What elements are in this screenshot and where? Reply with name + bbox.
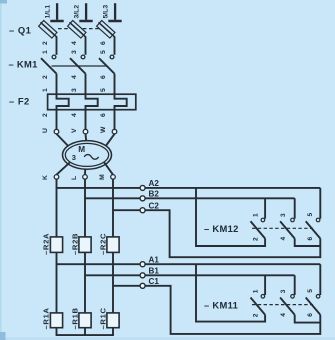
- node L1 terminal: [50, 3, 63, 21]
- contactor KM12 contact 1-2: [251, 218, 266, 238]
- contactor KM1 pole 1: [41, 55, 57, 74]
- svg-text:1: 1: [253, 289, 260, 293]
- node B2: [140, 196, 145, 201]
- wire A1 to KM11 pin 5: [319, 264, 321, 295]
- wire B2 tap: [85, 197, 295, 199]
- svg-text:6: 6: [307, 313, 314, 317]
- node L2 terminal: [79, 3, 92, 21]
- wire U to motor: [57, 134, 70, 148]
- svg-text:2: 2: [253, 237, 260, 241]
- contactor KM11 contact 1-2: [251, 295, 266, 315]
- svg-text:– F2: – F2: [9, 96, 30, 107]
- svg-text:–R1C: –R1C: [98, 307, 107, 329]
- resistor R1C: [107, 313, 119, 328]
- wire B1 to KM11 pin 1: [264, 275, 266, 295]
- wire C2 tap and down to common bar: [113, 210, 320, 257]
- wire Q1 to KM1 pole2: [85, 36, 87, 54]
- wire Q1 to KM1 pole3: [114, 36, 116, 54]
- wire A1 tap: [57, 263, 321, 265]
- wire KM1 to F2 pole1: [56, 74, 58, 95]
- resistor R1A: [50, 313, 62, 328]
- wire R1B to star bar: [84, 328, 86, 335]
- contactor KM1 pole 3: [99, 55, 115, 74]
- resistor R1B: [79, 313, 91, 328]
- motor M 3~: [63, 141, 112, 170]
- svg-text:4: 4: [280, 237, 287, 241]
- svg-text:W: W: [100, 126, 107, 133]
- svg-text:–R1A: –R1A: [41, 307, 50, 329]
- contactor KM11 contact 3-4: [280, 295, 295, 315]
- svg-text:– KM11: – KM11: [204, 299, 238, 310]
- svg-text:1: 1: [253, 213, 260, 217]
- wire B1 to KM11 pin 3: [294, 275, 296, 295]
- node M: [111, 175, 116, 180]
- svg-text:A2: A2: [149, 179, 160, 188]
- svg-text:B2: B2: [149, 190, 160, 199]
- contactor KM12 contact 5-6: [306, 218, 321, 238]
- svg-text:B1: B1: [149, 267, 160, 276]
- KM1 mechanical link: [52, 65, 107, 67]
- svg-text:3: 3: [71, 88, 78, 92]
- wire Q1 to KM1 pole1: [56, 36, 58, 54]
- wire L down to R2B: [84, 179, 86, 237]
- node L: [83, 175, 88, 180]
- svg-text:3: 3: [72, 153, 76, 162]
- F2 heater element pole 2: [86, 94, 98, 110]
- node A2: [140, 185, 145, 190]
- svg-text:4: 4: [71, 113, 78, 117]
- breaker Q1 pole 3: [97, 21, 115, 39]
- svg-text:4: 4: [280, 313, 287, 317]
- wire C1 tap and down to common bar: [113, 286, 320, 334]
- wire A1 branch to KM11 contact 2: [196, 264, 265, 321]
- page edge bottom: [0, 337, 335, 340]
- svg-text:1: 1: [42, 50, 49, 54]
- wire R2C to R1C: [112, 252, 114, 313]
- wire motor to M: [104, 162, 113, 174]
- wire W to motor: [105, 134, 115, 148]
- svg-text:U: U: [42, 128, 49, 133]
- svg-text:5/L3: 5/L3: [103, 5, 110, 19]
- wire KM1 to F2 pole3: [114, 74, 116, 95]
- svg-text:– KM1: – KM1: [9, 59, 38, 70]
- svg-text:V: V: [71, 128, 78, 133]
- contactor KM12 contact 3-4: [280, 218, 295, 238]
- node W: [112, 129, 117, 134]
- svg-text:–R1B: –R1B: [70, 307, 79, 329]
- wire rotor star bar: [56, 334, 114, 336]
- wire M down to R2C: [112, 179, 114, 237]
- wire F2 to W: [114, 110, 116, 130]
- svg-text:C2: C2: [149, 202, 160, 211]
- svg-text:M: M: [78, 145, 85, 154]
- svg-text:–R2A: –R2A: [41, 233, 50, 255]
- wire motor to K: [57, 162, 70, 174]
- wire B2 to KM12 pin 1: [264, 198, 266, 218]
- svg-text:4: 4: [71, 41, 78, 45]
- svg-text:2: 2: [42, 75, 49, 79]
- breaker Q1 pole 2: [68, 21, 86, 39]
- wire KM12 bar pins 4-6: [295, 239, 321, 247]
- svg-text:L: L: [71, 176, 78, 180]
- node U: [54, 129, 59, 134]
- wire R2B to R1B: [84, 252, 86, 313]
- svg-text:3: 3: [280, 213, 287, 217]
- resistor R2B: [79, 237, 91, 253]
- svg-text:A1: A1: [149, 256, 160, 265]
- wire KM1 to F2 pole2: [85, 74, 87, 95]
- wire KM11 bar pins 4-6: [295, 315, 321, 323]
- wire R2A to R1A: [56, 252, 58, 313]
- wire B1 tap: [85, 274, 295, 276]
- svg-text:3: 3: [280, 289, 287, 293]
- svg-text:–R2C: –R2C: [98, 233, 107, 255]
- wire F2 to V: [85, 110, 87, 130]
- svg-text:C1: C1: [149, 277, 160, 286]
- svg-text:K: K: [42, 175, 49, 180]
- page edge left: [0, 0, 2, 340]
- node V: [83, 129, 88, 134]
- svg-text:5: 5: [100, 88, 107, 92]
- contactor KM1 pole 2: [70, 55, 86, 74]
- svg-text:2: 2: [253, 313, 260, 317]
- wire K down to R2A: [56, 179, 58, 237]
- Q1 mechanical link (dashed): [58, 28, 112, 30]
- svg-text:6: 6: [100, 113, 107, 117]
- svg-text:4: 4: [71, 75, 78, 79]
- svg-text:3: 3: [71, 50, 78, 54]
- svg-text:1/L1: 1/L1: [45, 5, 52, 19]
- wire A2 tap: [57, 187, 321, 189]
- page corner mark top-left: [0, 0, 7, 4]
- wire V to motor: [85, 134, 88, 141]
- node B1: [140, 273, 145, 278]
- page corner mark bottom-left: [0, 332, 6, 340]
- thermal relay F2 body: [48, 94, 136, 110]
- resistor R2C: [107, 237, 119, 253]
- node K: [54, 175, 59, 180]
- node C2: [140, 208, 145, 213]
- svg-text:1: 1: [42, 88, 49, 92]
- wire A2 branch to KM12 contact 2: [196, 188, 265, 246]
- wire R1A to star bar: [56, 328, 58, 335]
- wire F2 to U: [56, 110, 58, 130]
- svg-text:–R2B: –R2B: [70, 233, 79, 255]
- KM12 mechanical link (dashed): [252, 227, 313, 229]
- svg-text:5: 5: [100, 50, 107, 54]
- wire A2 to KM12 pin 5: [319, 188, 321, 219]
- svg-text:M: M: [99, 174, 106, 180]
- svg-text:6: 6: [100, 41, 107, 45]
- node A1: [140, 262, 145, 267]
- F2 heater element pole 1: [57, 94, 69, 110]
- wire R1C to star bar: [112, 328, 114, 335]
- breaker Q1 pole 1: [39, 21, 57, 39]
- node L3 terminal: [108, 3, 121, 21]
- svg-text:2: 2: [42, 113, 49, 117]
- svg-text:5: 5: [307, 289, 314, 293]
- KM11 mechanical link (dashed): [252, 304, 313, 306]
- svg-text:– KM12: – KM12: [204, 223, 239, 234]
- svg-text:3/L2: 3/L2: [74, 5, 81, 19]
- svg-text:6: 6: [307, 237, 314, 241]
- wire B2 to KM12 pin 3: [294, 198, 296, 218]
- svg-text:– Q1: – Q1: [9, 25, 31, 36]
- svg-text:6: 6: [100, 75, 107, 79]
- resistor R2A: [50, 237, 62, 253]
- F2 heater element pole 3: [115, 94, 127, 110]
- svg-text:2: 2: [42, 41, 49, 45]
- node C1: [140, 283, 145, 288]
- svg-text:5: 5: [307, 213, 314, 217]
- contactor KM11 contact 5-6: [306, 295, 321, 315]
- wire motor to L: [84, 169, 86, 175]
